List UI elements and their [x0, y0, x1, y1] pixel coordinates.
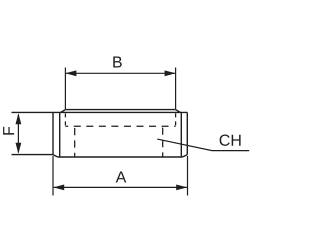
- label A: [116, 171, 127, 182]
- body bottom edge: [58, 156, 183, 158]
- hidden bore top dashed line: [65, 125, 175, 127]
- bottom-left chamfer diagonal: [53, 155, 58, 157]
- A extension line right: [187, 156, 189, 196]
- right end face vertical: [186, 112, 188, 154]
- label CH: [220, 135, 241, 146]
- top-right chamfer diagonal: [176, 110, 181, 113]
- B extension line right: [175, 68, 177, 110]
- A arrowhead right: [176, 185, 187, 191]
- B arrowhead left: [65, 70, 76, 76]
- B arrowhead right: [165, 70, 176, 76]
- A arrowhead left: [53, 185, 64, 191]
- bottom-right chamfer diagonal: [183, 155, 188, 157]
- top-left chamfer diagonal: [61, 110, 66, 113]
- hidden chamfer dashed vertical right outer: [175, 113, 177, 125]
- label F rotated: [3, 127, 14, 135]
- F bottom extension line: [12, 154, 54, 156]
- body top edge between chamfers: [65, 109, 175, 111]
- left end face vertical: [52, 112, 54, 154]
- F arrowhead bottom: [16, 143, 22, 154]
- B dimension line: [66, 72, 175, 74]
- right chamfer vertical: [180, 112, 182, 157]
- A extension line left: [52, 156, 54, 196]
- F arrowhead top: [16, 113, 22, 124]
- body top shoulder line full length with F extension: [12, 111, 188, 113]
- left chamfer vertical: [59, 112, 61, 157]
- F dimension line: [17, 115, 19, 153]
- A dimension line: [54, 186, 187, 188]
- hidden dashed vertical right inner: [162, 128, 164, 157]
- hidden dashed vertical left inner: [74, 128, 76, 157]
- label B: [113, 56, 122, 67]
- CH leader line: [157, 139, 249, 151]
- B extension line left: [64, 68, 66, 110]
- hidden chamfer dashed vertical left outer: [64, 113, 66, 126]
